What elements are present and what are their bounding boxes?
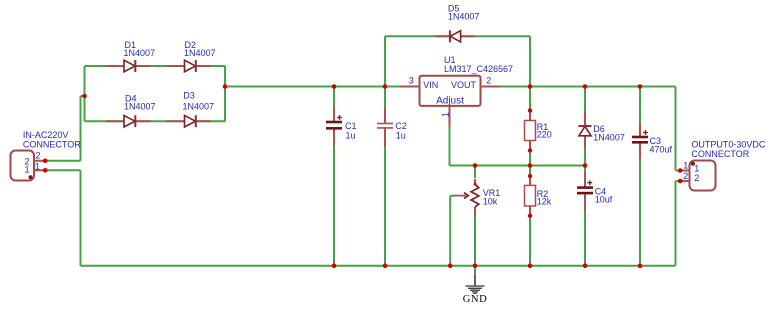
- svg-text:VIN: VIN: [423, 80, 438, 90]
- svg-text:12k: 12k: [537, 197, 552, 207]
- svg-text:C1: C1: [345, 121, 357, 131]
- svg-text:D3: D3: [183, 90, 195, 100]
- svg-text:VOUT: VOUT: [451, 80, 477, 90]
- svg-text:1u: 1u: [396, 130, 406, 140]
- svg-text:1: 1: [694, 163, 699, 173]
- svg-text:2: 2: [486, 76, 491, 86]
- svg-text:10uf: 10uf: [595, 194, 613, 204]
- svg-text:LM317_C426567: LM317_C426567: [444, 64, 513, 74]
- svg-text:3: 3: [409, 76, 414, 86]
- svg-text:2: 2: [35, 150, 40, 160]
- svg-text:1N4007: 1N4007: [593, 133, 625, 143]
- svg-text:2: 2: [683, 171, 688, 181]
- svg-text:1N4007: 1N4007: [184, 48, 216, 58]
- svg-text:1N4007: 1N4007: [124, 48, 156, 58]
- svg-text:1N4007: 1N4007: [124, 102, 156, 112]
- svg-text:1: 1: [440, 112, 450, 117]
- svg-text:CONNECTOR: CONNECTOR: [23, 140, 81, 150]
- svg-text:GND: GND: [463, 294, 488, 305]
- svg-text:2: 2: [694, 173, 699, 183]
- svg-text:1u: 1u: [346, 130, 356, 140]
- svg-text:1N4007: 1N4007: [448, 12, 480, 22]
- svg-text:1N4007: 1N4007: [183, 102, 215, 112]
- svg-text:CONNECTOR: CONNECTOR: [691, 149, 749, 159]
- svg-text:1: 1: [683, 161, 688, 171]
- svg-text:220: 220: [537, 129, 552, 139]
- svg-text:Adjust: Adjust: [436, 96, 464, 107]
- svg-text:1: 1: [35, 162, 40, 172]
- svg-text:OUTPUT0-30VDC: OUTPUT0-30VDC: [691, 139, 766, 149]
- svg-text:470uf: 470uf: [650, 144, 673, 154]
- svg-text:1: 1: [24, 164, 29, 174]
- svg-text:10k: 10k: [483, 196, 498, 206]
- svg-text:C2: C2: [395, 121, 407, 131]
- svg-text:IN-AC220V: IN-AC220V: [23, 130, 69, 140]
